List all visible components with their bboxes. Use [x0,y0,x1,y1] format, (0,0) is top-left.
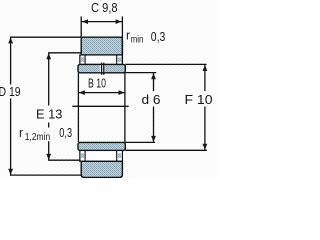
svg-text:C 9,8: C 9,8 [91,0,118,15]
svg-text:r: r [19,125,24,140]
svg-text:min: min [131,35,144,46]
svg-text:D 19: D 19 [0,84,21,99]
svg-text:E 13: E 13 [36,107,62,122]
svg-text:F 10: F 10 [185,92,213,107]
svg-text:1,2min: 1,2min [25,132,50,143]
svg-text:0,3: 0,3 [59,125,72,140]
svg-text:d 6: d 6 [142,92,161,107]
svg-text:0,3: 0,3 [151,29,166,44]
svg-text:B 10: B 10 [88,75,106,90]
